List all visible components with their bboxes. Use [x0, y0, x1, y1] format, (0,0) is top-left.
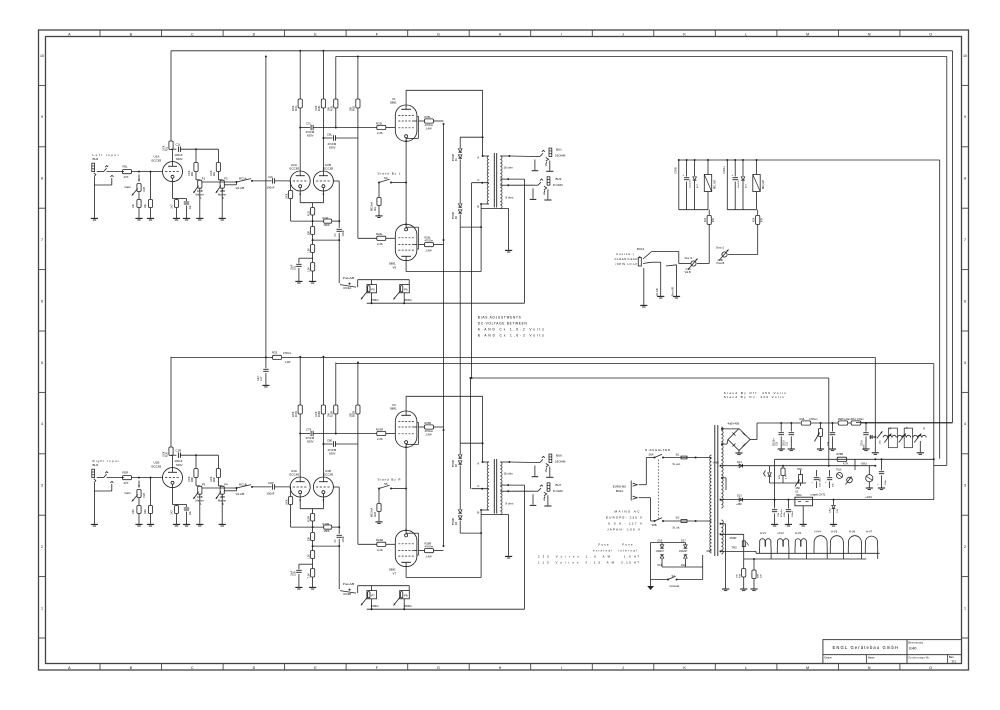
- svg-text:100nF: 100nF: [343, 229, 345, 236]
- potentiometer P3 1M Master A: [196, 485, 200, 487]
- svg-text:M: M: [806, 666, 809, 670]
- svg-text:C8L: C8L: [327, 132, 333, 136]
- svg-text:10u 16U: 10u 16U: [738, 179, 740, 188]
- svg-text:47K: 47K: [713, 217, 715, 222]
- svg-text:Datum: Datum: [825, 656, 832, 659]
- trim pot P10: [847, 477, 853, 483]
- resistor R36 470: [801, 421, 811, 425]
- svg-text:630V: 630V: [176, 157, 183, 161]
- ground (TR2 common): [722, 588, 729, 590]
- resistor R4R 100K: [195, 455, 197, 468]
- svg-text:V5: V5: [393, 265, 397, 269]
- resistor R14 47K: [757, 210, 759, 216]
- capacitor C33 150U: [865, 422, 867, 424]
- svg-text:2K7: 2K7: [171, 510, 174, 515]
- svg-text:P5: P5: [371, 287, 375, 291]
- svg-text:BU3: BU3: [556, 177, 562, 181]
- ground (P4): [219, 523, 226, 525]
- svg-text:C7L: C7L: [306, 122, 312, 126]
- wire (switch gang link): [658, 460, 660, 519]
- opto/diode T1: [768, 473, 772, 476]
- wire (standby feed to right OT): [469, 378, 471, 489]
- svg-text:R1L: R1L: [167, 146, 169, 151]
- resistor R39 (heater ref): [743, 559, 745, 569]
- resistor R17R 220K (plate load): [299, 357, 301, 405]
- svg-text:2: 2: [41, 545, 43, 549]
- ground (C32): [829, 448, 836, 450]
- svg-text:Pres.A/B: Pres.A/B: [672, 286, 675, 296]
- svg-text:R19R: R19R: [332, 411, 334, 417]
- wire (B+ rail 2 left channel): [336, 56, 947, 58]
- svg-text:R18L: R18L: [319, 105, 321, 111]
- svg-text:TR2: TR2: [731, 546, 737, 550]
- svg-text:16OHM: 16OHM: [555, 154, 566, 158]
- svg-text:V7: V7: [393, 571, 397, 575]
- ground (C17): [262, 384, 269, 386]
- wire (bias track end): [919, 441, 921, 452]
- wire (B+ bus down right side 1): [952, 51, 954, 423]
- svg-text:6: 6: [41, 299, 43, 303]
- resistor R18L 100K (plate load): [322, 51, 324, 99]
- svg-text:150K: 150K: [324, 529, 330, 533]
- svg-text:U.S.A.- 117 V: U.S.A.- 117 V: [608, 522, 643, 526]
- svg-text:10u 16U: 10u 16U: [689, 179, 691, 188]
- svg-text:O: O: [929, 666, 932, 670]
- svg-text:Si.,ext.: Si.,ext.: [673, 462, 681, 466]
- svg-text:1,5K: 1,5K: [308, 554, 310, 559]
- output jack BU6 16 OHM: [549, 454, 552, 462]
- capacitor C6R: [137, 506, 141, 514]
- svg-text:C79: C79: [306, 428, 312, 432]
- svg-text:M315mA: M315mA: [371, 507, 374, 517]
- capacitor C3L 100nF (feedback): [333, 180, 339, 182]
- wire (B+ rail 2 right channel): [336, 363, 934, 365]
- svg-text:ENGL Gerätebau GmbH: ENGL Gerätebau GmbH: [833, 645, 899, 650]
- svg-text:Vol.A/B: Vol.A/B: [236, 186, 245, 190]
- resistor R5L 47K: [123, 170, 132, 174]
- svg-text:1,4W: 1,4W: [426, 433, 433, 437]
- svg-text:7: 7: [964, 238, 966, 242]
- capacitor C10 10u: [686, 160, 688, 177]
- svg-text:R2L: R2L: [214, 171, 216, 176]
- svg-text:ECC83: ECC83: [152, 158, 162, 162]
- wire (bias bottom rail): [933, 458, 935, 460]
- ground (cathode): [173, 217, 180, 219]
- svg-text:47K: 47K: [124, 481, 129, 485]
- svg-text:1/1: 1/1: [951, 660, 956, 664]
- svg-text:C1R: C1R: [176, 448, 182, 452]
- wire (footswitch ring): [643, 262, 652, 263]
- svg-text:C6L: C6L: [132, 203, 135, 208]
- svg-text:250Kn: 250Kn: [371, 298, 380, 302]
- svg-text:1,4W: 1,4W: [426, 127, 433, 131]
- svg-text:1: 1: [964, 606, 966, 610]
- svg-text:R33: R33: [272, 350, 278, 354]
- svg-text:H-V5: H-V5: [831, 530, 838, 534]
- svg-text:N-SCHALTER: N-SCHALTER: [645, 448, 671, 452]
- resistor R13L 22K: [312, 221, 314, 226]
- svg-text:8 OHM: 8 OHM: [553, 489, 563, 493]
- ground (U1 regulator): [802, 506, 804, 524]
- svg-text:Si1: Si1: [676, 452, 680, 456]
- svg-text:2,2K: 2,2K: [377, 548, 383, 552]
- svg-text:9: 9: [41, 115, 43, 119]
- ground (cathode): [173, 523, 180, 525]
- svg-text:10nF: 10nF: [292, 570, 294, 576]
- svg-text:ECC83: ECC83: [152, 464, 162, 468]
- svg-text:Stand By On: 420 Volts: Stand By On: 420 Volts: [724, 395, 785, 399]
- svg-text:25K: 25K: [796, 486, 801, 490]
- svg-text:39K: 39K: [329, 106, 331, 111]
- svg-text:5881: 5881: [390, 407, 397, 411]
- wire (mains neutral): [639, 497, 651, 499]
- diode D15 1N4007: [653, 542, 685, 544]
- node B (TR1): [481, 203, 489, 205]
- diode D13: [739, 498, 742, 502]
- zener diode D6 4U7: [742, 160, 744, 176]
- svg-text:ECC83: ECC83: [290, 473, 300, 477]
- wire (presence bottom rail): [367, 608, 525, 610]
- svg-text:RC2B: RC2B: [344, 592, 352, 596]
- svg-text:ungek.CKT1: ungek.CKT1: [811, 492, 826, 496]
- output jack BU7 8 OHM: [547, 483, 550, 491]
- svg-text:22u: 22u: [189, 204, 192, 209]
- svg-text:1,5Gm: 1,5Gm: [857, 418, 864, 421]
- svg-text:MAINS AC: MAINS AC: [615, 510, 641, 514]
- ground (R37): [817, 448, 824, 450]
- svg-text:2K7: 2K7: [171, 204, 174, 209]
- wire (V1 plate to OT): [405, 90, 407, 105]
- svg-text:D17: D17: [681, 540, 686, 543]
- svg-text:470Gm: 470Gm: [809, 417, 818, 421]
- svg-text:100U: 100U: [784, 511, 786, 517]
- svg-text:D14: D14: [737, 461, 742, 464]
- svg-text:R18R: R18R: [319, 411, 321, 417]
- ground (OT secondary): [505, 555, 512, 557]
- resistor R2R 100K: [217, 455, 219, 468]
- wire (secondary common): [481, 208, 509, 210]
- relay coil RE1 A/B: [707, 160, 709, 175]
- svg-text:100nF: 100nF: [267, 186, 275, 190]
- svg-text:R28R: R28R: [837, 452, 844, 456]
- bias network box 2: [904, 428, 912, 448]
- capacitor C2R 100nF: [252, 486, 272, 488]
- ground (fuse Si1L): [375, 215, 382, 217]
- wire (-56V box top): [775, 458, 934, 460]
- bias trimmer track R41: [883, 435, 896, 437]
- capacitor C7L 47nF 630V: [300, 127, 310, 129]
- resistor R20R 39K: [357, 363, 359, 406]
- svg-text:S6A: S6A: [649, 453, 654, 457]
- svg-text:16OHM: 16OHM: [555, 460, 566, 464]
- svg-text:ECC83: ECC83: [324, 473, 334, 477]
- resistor R28R 4,7K: [837, 457, 847, 461]
- svg-text:1,4W: 1,4W: [285, 361, 291, 364]
- svg-text:R17R: R17R: [296, 411, 298, 417]
- svg-text:Blatt: Blatt: [949, 656, 954, 659]
- svg-text:C5R: C5R: [295, 571, 297, 576]
- diode D17 1N4007: [684, 543, 686, 545]
- resistor R31 1,5K: [851, 421, 861, 425]
- svg-text:E40: E40: [909, 645, 917, 650]
- wire (B+ rail 1 left channel): [171, 50, 953, 52]
- svg-text:220K: 220K: [293, 105, 295, 111]
- capacitor C32: [832, 422, 834, 424]
- capacitor C22 100u 63V: [815, 470, 817, 477]
- diode D14: [739, 464, 742, 468]
- resistor R13R 22K: [312, 527, 314, 532]
- svg-text:J: J: [622, 666, 624, 670]
- svg-text:R1R: R1R: [167, 452, 169, 457]
- wire (V3 plate to OT): [405, 396, 407, 411]
- svg-text:S6B: S6B: [652, 523, 657, 527]
- svg-text:H-V4: H-V4: [815, 530, 822, 534]
- svg-text:T010: T010: [836, 469, 842, 471]
- resistor R4L 100K: [195, 149, 197, 162]
- wire (diode block bottom): [662, 566, 703, 568]
- output transformer TR3 primary: [487, 462, 489, 510]
- svg-text:R12L: R12L: [323, 216, 330, 220]
- svg-text:250Kn: 250Kn: [404, 298, 413, 302]
- svg-text:R20L: R20L: [354, 105, 356, 111]
- svg-text:R14: R14: [754, 217, 756, 222]
- svg-text:8: 8: [41, 177, 43, 181]
- svg-text:8 ohm: 8 ohm: [506, 501, 514, 505]
- svg-text:BU4: BU4: [93, 157, 99, 161]
- ground (footswitch ring): [657, 295, 664, 297]
- svg-text:4xBY456: 4xBY456: [728, 422, 740, 426]
- ground (R40): [750, 588, 757, 590]
- ground (C6R): [135, 523, 142, 525]
- svg-text:Vol.A/B: Vol.A/B: [656, 288, 659, 296]
- svg-text:BY448: BY448: [453, 517, 455, 525]
- ground (OT secondary): [505, 249, 512, 251]
- svg-text:C5L: C5L: [295, 265, 297, 270]
- capacitor C30 47u 350V: [780, 422, 782, 424]
- svg-text:100nF: 100nF: [267, 492, 275, 496]
- svg-text:10nF: 10nF: [292, 264, 294, 270]
- svg-text:8 ohm: 8 ohm: [506, 195, 514, 199]
- wire (junction): [312, 239, 314, 241]
- svg-text:16 ohm: 16 ohm: [504, 165, 514, 169]
- svg-text:100K: 100K: [211, 476, 213, 482]
- output jack BU1 16 OHM: [549, 148, 552, 156]
- svg-text:5: 5: [964, 361, 966, 365]
- resistor R15L 3,3K: [311, 263, 315, 272]
- svg-text:3: 3: [41, 484, 43, 488]
- svg-text:250R: 250R: [730, 536, 737, 540]
- svg-text:C31: C31: [787, 441, 789, 446]
- wire (plate): [172, 455, 174, 468]
- svg-text:4,7K: 4,7K: [786, 474, 788, 479]
- power transformer TR2 core: [714, 425, 716, 556]
- bias trimmer track R42: [898, 435, 911, 437]
- svg-text:R24L: R24L: [376, 232, 383, 236]
- capacitor C5L 10nF: [299, 257, 313, 259]
- output transformer TR1 core: [493, 153, 495, 208]
- diode D1 BY448: [460, 136, 482, 138]
- svg-text:R23L: R23L: [376, 121, 383, 125]
- svg-text:1,4W: 1,4W: [426, 555, 433, 559]
- svg-text:BU10: BU10: [616, 489, 624, 493]
- svg-text:I: I: [561, 666, 562, 670]
- svg-text:BU1: BU1: [556, 148, 562, 152]
- svg-text:M: M: [806, 32, 809, 36]
- svg-text:BU7: BU7: [556, 483, 562, 487]
- ground (fuse Si1R): [375, 521, 382, 523]
- svg-text:1,5K: 1,5K: [308, 248, 310, 253]
- svg-text:100K: 100K: [189, 476, 191, 482]
- svg-text:5881: 5881: [390, 101, 397, 105]
- capacitor C79 47nF 630V: [300, 433, 310, 435]
- svg-text:R25R: R25R: [425, 421, 432, 425]
- svg-text:4: 4: [41, 422, 43, 426]
- wire (heater bus 2): [744, 558, 867, 560]
- svg-text:C1L: C1L: [176, 142, 182, 146]
- svg-text:R23R: R23R: [376, 427, 383, 431]
- ground (P2): [219, 217, 226, 219]
- svg-text:25U: 25U: [879, 440, 881, 444]
- svg-text:100uF: 100uF: [792, 510, 794, 517]
- output jack BU3 8 OHM: [547, 177, 550, 185]
- ground (bridge negative): [738, 451, 740, 453]
- svg-text:Ground: Ground: [670, 584, 680, 588]
- svg-text:1N4007: 1N4007: [679, 550, 688, 553]
- svg-text:63U: 63U: [833, 483, 835, 487]
- wire (bias rail): [856, 422, 953, 424]
- relay contact RC1A (Vol.A/B): [202, 181, 237, 183]
- wire (16 ohm tap): [500, 155, 509, 157]
- resistor R26R 470 (screen): [419, 550, 425, 552]
- svg-text:BIAS ADJUSTMENTS: BIAS ADJUSTMENTS: [478, 315, 521, 319]
- svg-text:470Gm: 470Gm: [283, 352, 291, 355]
- cathode network R7R/C7R: [172, 487, 174, 504]
- ground (R6L): [147, 217, 154, 219]
- svg-text:47K: 47K: [124, 175, 129, 179]
- resistor R9L 180K (grid leak): [290, 181, 292, 191]
- wire (8 ohm tap): [507, 484, 509, 486]
- svg-text:1: 1: [41, 606, 43, 610]
- svg-text:H: H: [499, 666, 502, 670]
- resistor R10L 470: [312, 203, 314, 208]
- resistor R9R 180K (grid leak): [290, 487, 292, 497]
- svg-text:1MB: 1MB: [143, 493, 146, 498]
- ground (C33): [862, 448, 869, 450]
- svg-text:100K: 100K: [189, 170, 191, 176]
- svg-text:C: C: [191, 32, 194, 36]
- svg-text:3,3K: 3,3K: [308, 573, 310, 578]
- svg-text:6: 6: [964, 299, 966, 303]
- resistor R1R 100K (B+ dropper): [170, 357, 172, 447]
- svg-text:2,2K: 2,2K: [377, 437, 383, 441]
- output transformer TR3 core: [493, 459, 495, 514]
- resistor R25L 470 (screen): [419, 120, 425, 122]
- svg-text:CON11: CON11: [723, 166, 726, 174]
- node B (TR3): [481, 509, 489, 511]
- svg-text:Si2: Si2: [676, 515, 680, 519]
- resistor R18R 100K (plate load): [322, 357, 324, 405]
- svg-text:39K: 39K: [329, 412, 331, 417]
- svg-text:Gain: Gain: [125, 185, 131, 189]
- wire (phase inverter cathodes): [299, 497, 301, 502]
- svg-text:M50U: M50U: [864, 444, 866, 450]
- wire (bridge output B+): [750, 439, 757, 441]
- ground (C20): [785, 523, 792, 525]
- ground (R15L): [309, 280, 316, 282]
- svg-text:BU6: BU6: [556, 454, 562, 458]
- potentiometer P1 1M Master A: [196, 179, 200, 181]
- svg-text:R6R: R6R: [144, 509, 147, 514]
- svg-text:C80: C80: [327, 438, 333, 442]
- ground (bias rail): [872, 452, 879, 454]
- capacitor C1L 100nF 630V: [170, 148, 172, 150]
- svg-text:CON8: CON8: [674, 167, 677, 174]
- svg-text:Si1R: Si1R: [375, 512, 377, 517]
- fuse Si1L M315mA: [378, 183, 380, 198]
- svg-text:G: G: [437, 32, 440, 36]
- svg-text:N: N: [868, 32, 871, 36]
- svg-text:H-V7: H-V7: [866, 530, 873, 534]
- svg-text:180K: 180K: [286, 193, 288, 199]
- capacitor C25 100u: [881, 458, 883, 460]
- svg-text:7: 7: [41, 238, 43, 242]
- wire (footswitch contact 2): [666, 265, 677, 266]
- svg-text:Name: Name: [868, 656, 875, 659]
- svg-text:L: L: [745, 32, 747, 36]
- svg-text:C: C: [191, 666, 194, 670]
- svg-text:TR1L: TR1L: [797, 469, 803, 471]
- svg-text:S5: S5: [384, 482, 388, 486]
- fuse Si2 internal: [681, 520, 687, 523]
- capacitor C3R 100nF (feedback): [333, 486, 339, 488]
- svg-text:Fuse: Fuse: [599, 542, 609, 546]
- svg-text:630V: 630V: [329, 451, 336, 455]
- resistor R1L 100K (B+ dropper): [170, 51, 172, 141]
- wire (presence bottom rail): [367, 302, 525, 304]
- svg-text:D16: D16: [658, 564, 663, 567]
- ground (P3): [196, 523, 203, 525]
- cathode network R7L/C7L: [172, 181, 174, 198]
- svg-text:Si1L: Si1L: [375, 206, 377, 211]
- resistor R2L 100K: [217, 149, 219, 162]
- svg-text:H: H: [499, 32, 502, 36]
- svg-text:630V: 630V: [329, 145, 336, 149]
- svg-text:RC2A: RC2A: [344, 286, 352, 290]
- wire (grid feed): [132, 477, 163, 479]
- wire (plate): [172, 149, 174, 162]
- resistor R20L 39K: [357, 57, 359, 100]
- ground (R39): [740, 588, 747, 590]
- fuse Si1R M315mA: [378, 489, 380, 504]
- capacitor C5R 10nF: [299, 563, 313, 565]
- svg-text:P4: P4: [224, 482, 228, 486]
- wire (heater winding taps): [721, 477, 723, 479]
- earth (mains ground): [647, 586, 654, 590]
- svg-text:1MB: 1MB: [143, 187, 146, 192]
- ground (C5L): [295, 280, 302, 282]
- svg-text:B AND Cx 1,6-2 Volts: B AND Cx 1,6-2 Volts: [478, 333, 544, 337]
- svg-text:(9PIN LO,HI): (9PIN LO,HI): [616, 262, 639, 266]
- svg-text:H-V6: H-V6: [849, 530, 856, 534]
- svg-text:R4L: R4L: [192, 171, 194, 176]
- svg-text:-56U: -56U: [861, 461, 867, 465]
- svg-text:D: D: [253, 666, 256, 670]
- svg-text:R25L: R25L: [425, 115, 432, 119]
- resistor R15R 3,3K: [311, 569, 315, 578]
- transistor T3: [866, 475, 873, 482]
- svg-text:9: 9: [964, 115, 966, 119]
- ground (footswitch sleeve): [643, 268, 645, 305]
